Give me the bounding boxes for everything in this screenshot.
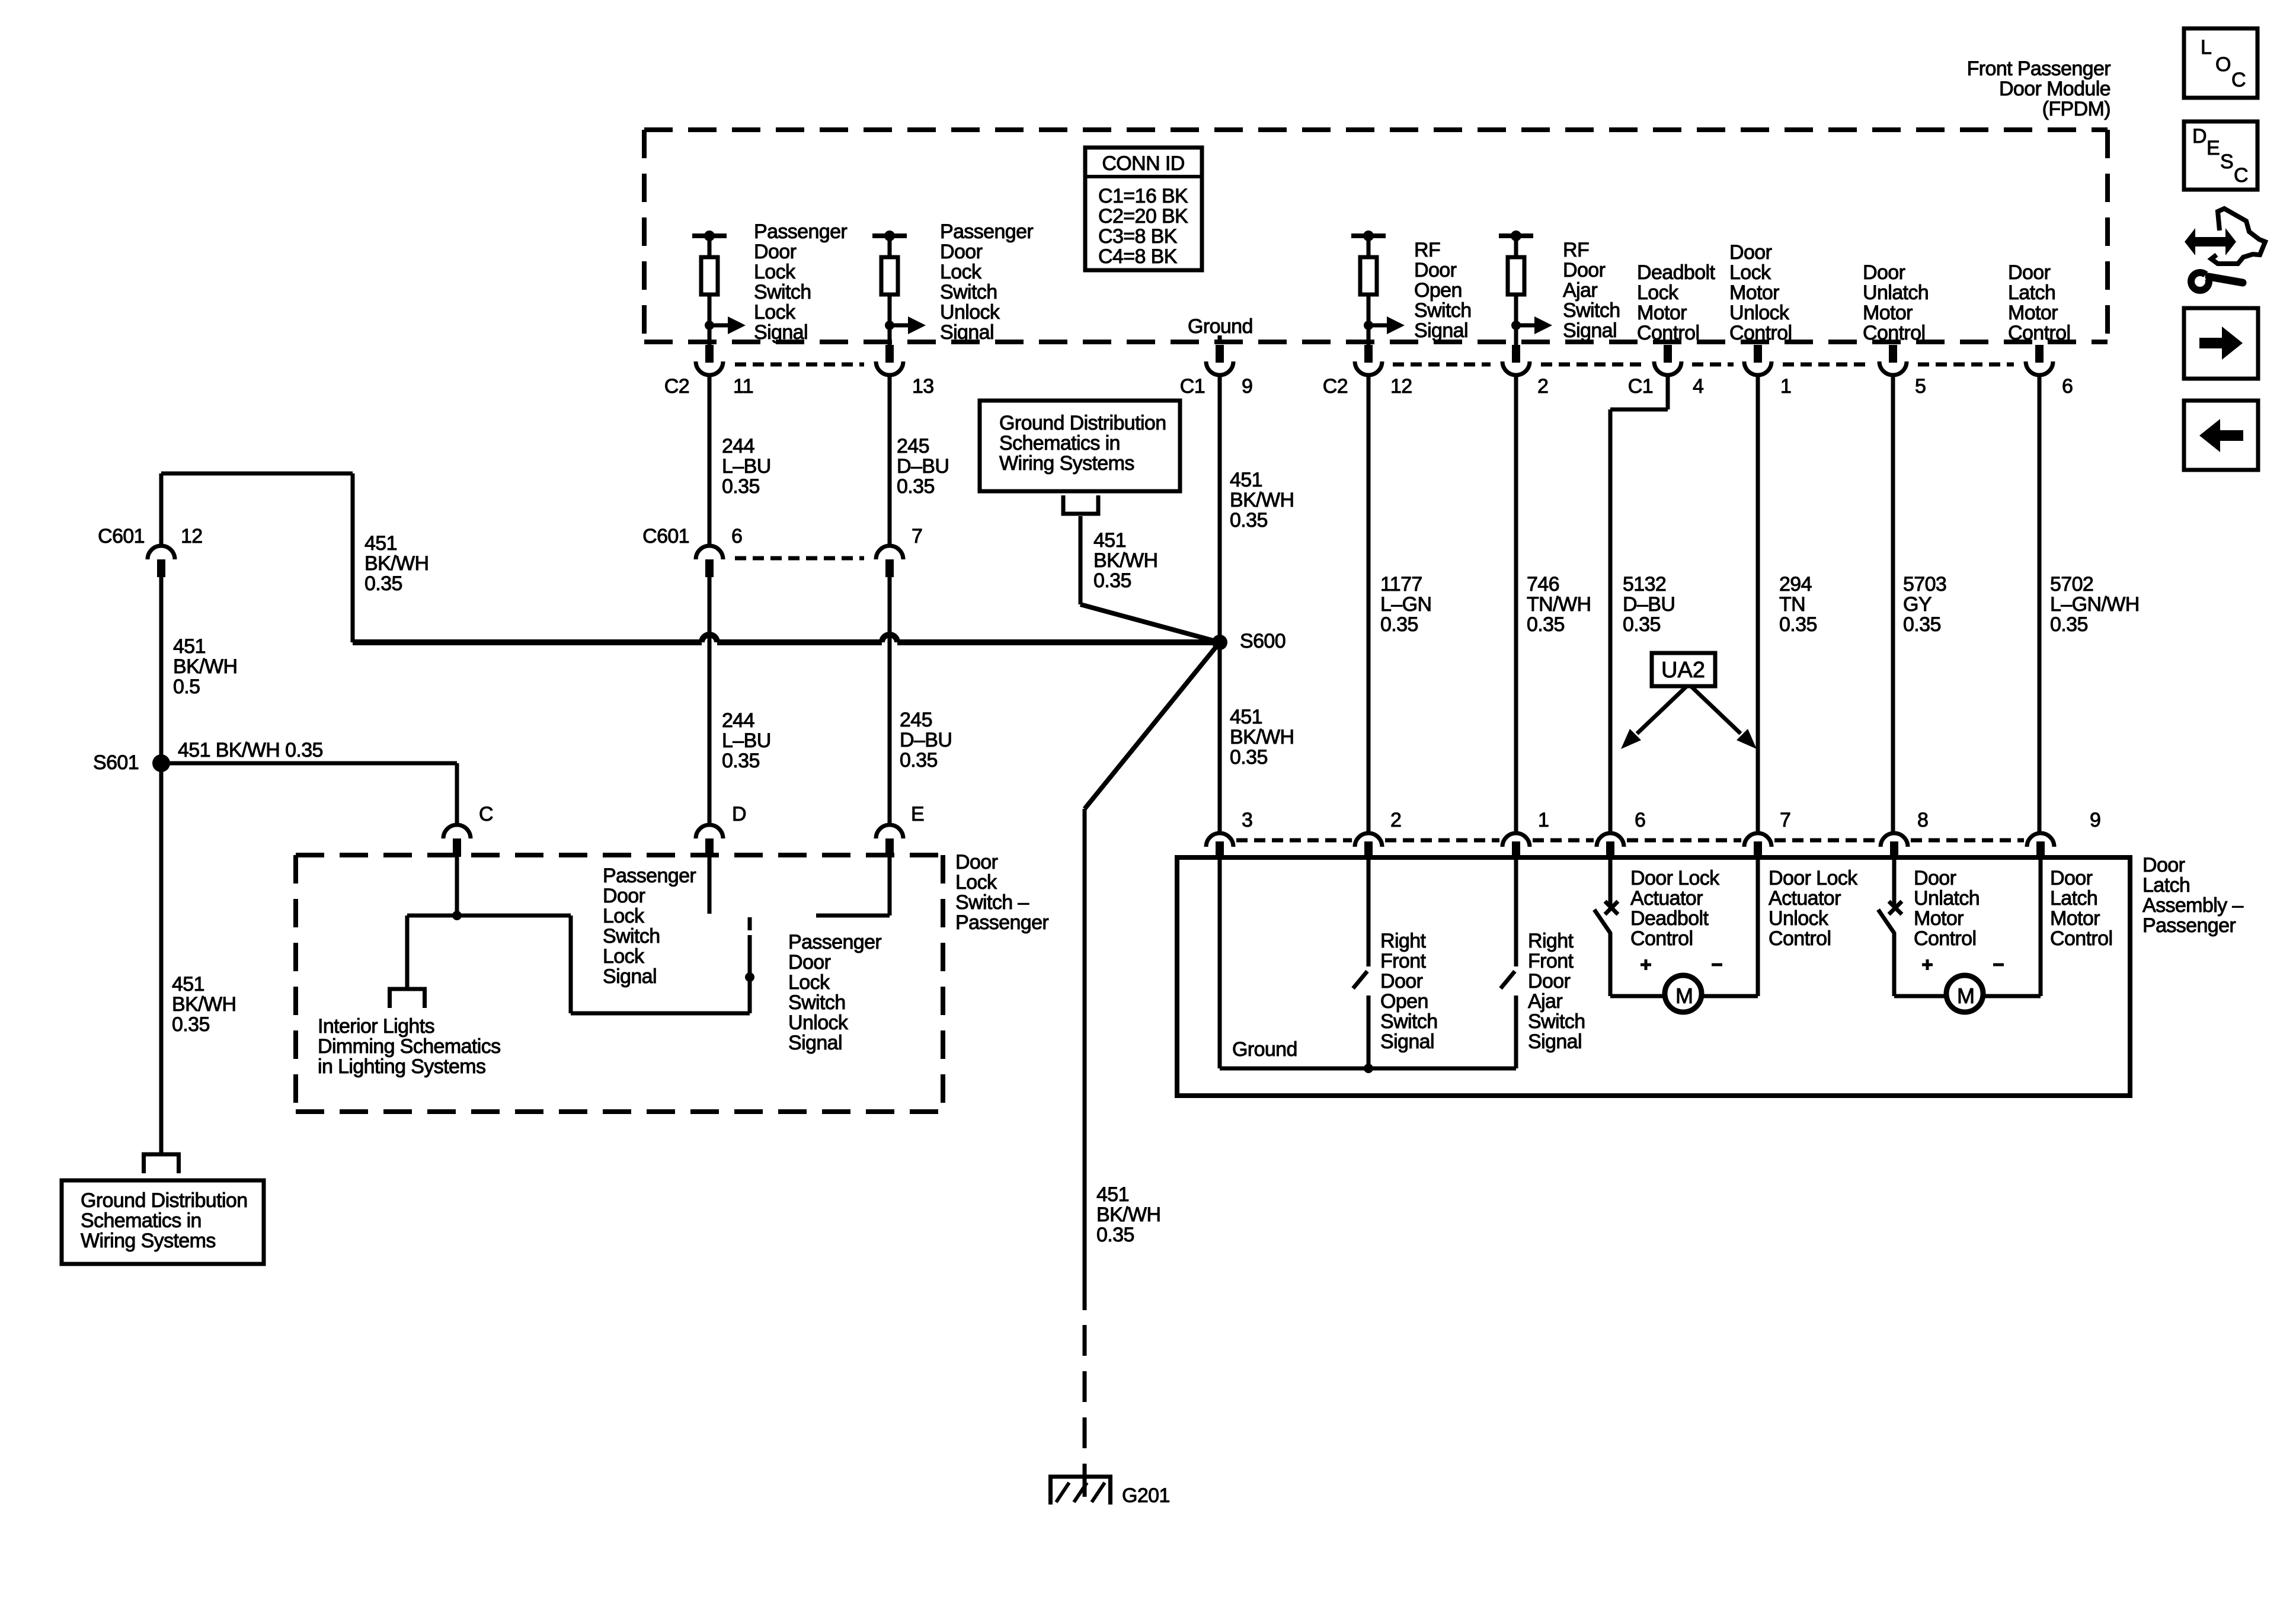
svg-text:UA2: UA2 (1661, 658, 1705, 683)
svg-text:L–GN/WH: L–GN/WH (2050, 593, 2140, 616)
svg-text:Lock: Lock (788, 971, 830, 994)
svg-text:5702: 5702 (2050, 573, 2093, 596)
svg-text:0.35: 0.35 (1230, 746, 1268, 769)
svg-text:Switch –: Switch – (955, 891, 1029, 914)
svg-text:0.35: 0.35 (1093, 569, 1131, 592)
svg-text:Deadbolt: Deadbolt (1637, 261, 1715, 284)
svg-text:Switch: Switch (940, 281, 997, 303)
svg-text:Passenger: Passenger (788, 931, 881, 953)
svg-text:6: 6 (731, 525, 742, 548)
svg-text:C3=8 BK: C3=8 BK (1098, 225, 1178, 248)
svg-text:RF: RF (1563, 239, 1589, 261)
svg-text:0.35: 0.35 (364, 572, 402, 595)
svg-text:Ground Distribution: Ground Distribution (999, 412, 1166, 434)
svg-text:BK/WH: BK/WH (1230, 726, 1294, 748)
svg-text:1: 1 (1538, 809, 1549, 831)
svg-text:L–GN: L–GN (1380, 593, 1431, 616)
svg-text:5132: 5132 (1623, 573, 1666, 596)
svg-text:Schematics in: Schematics in (999, 432, 1120, 454)
svg-text:12: 12 (181, 525, 203, 548)
svg-text:Open: Open (1380, 990, 1428, 1013)
svg-text:L–BU: L–BU (722, 729, 771, 752)
svg-text:9: 9 (2090, 809, 2100, 831)
svg-text:S601: S601 (93, 751, 139, 774)
svg-text:Motor: Motor (2050, 907, 2100, 930)
svg-text:Door: Door (754, 241, 797, 263)
svg-text:Actuator: Actuator (1630, 887, 1703, 910)
svg-text:Unlatch: Unlatch (1914, 887, 1980, 910)
svg-text:Lock: Lock (603, 945, 645, 968)
svg-text:2: 2 (1390, 809, 1401, 831)
svg-text:Signal: Signal (754, 321, 808, 344)
svg-text:Unlock: Unlock (1769, 907, 1829, 930)
svg-text:0.35: 0.35 (897, 475, 935, 498)
svg-text:Passenger: Passenger (754, 220, 847, 243)
svg-text:Motor: Motor (1863, 302, 1913, 324)
svg-text:Door: Door (1414, 259, 1457, 281)
svg-text:GY: GY (1903, 593, 1932, 616)
svg-text:Motor: Motor (1729, 281, 1779, 304)
svg-text:M: M (1957, 984, 1975, 1008)
svg-text:D: D (732, 803, 746, 825)
svg-text:Control: Control (1729, 322, 1792, 344)
svg-text:Ground Distribution: Ground Distribution (81, 1189, 248, 1212)
svg-text:11: 11 (733, 375, 753, 398)
svg-text:C: C (2231, 69, 2246, 91)
svg-text:2: 2 (1537, 375, 1548, 398)
svg-text:0.35: 0.35 (1380, 613, 1418, 636)
svg-text:Door: Door (1563, 259, 1606, 281)
svg-text:Actuator: Actuator (1769, 887, 1841, 910)
svg-text:Passenger: Passenger (603, 865, 696, 887)
svg-text:Control: Control (1637, 322, 1699, 344)
svg-text:244: 244 (722, 435, 754, 457)
svg-text:Lock: Lock (603, 905, 645, 927)
svg-text:D–BU: D–BU (897, 455, 949, 478)
svg-text:4: 4 (1693, 375, 1703, 398)
svg-text:C1=16 BK: C1=16 BK (1098, 185, 1188, 207)
svg-text:Control: Control (1630, 927, 1693, 950)
svg-text:0.35: 0.35 (1623, 613, 1661, 636)
svg-text:L–BU: L–BU (722, 455, 771, 478)
svg-text:0.35: 0.35 (1230, 509, 1268, 532)
svg-text:Motor: Motor (1637, 302, 1687, 324)
svg-text:Ground: Ground (1188, 315, 1253, 338)
svg-text:Switch: Switch (603, 925, 660, 948)
svg-text:Lock: Lock (754, 301, 796, 324)
svg-text:Wiring Systems: Wiring Systems (81, 1230, 216, 1252)
svg-text:12: 12 (1390, 375, 1412, 398)
svg-text:C2=20 BK: C2=20 BK (1098, 205, 1188, 228)
svg-text:Door: Door (788, 951, 831, 974)
svg-text:Ajar: Ajar (1528, 990, 1562, 1013)
svg-text:9: 9 (1242, 375, 1252, 398)
svg-text:Control: Control (1914, 927, 1976, 950)
svg-text:Control: Control (2050, 927, 2112, 950)
svg-text:L: L (2201, 36, 2211, 59)
svg-text:0.35: 0.35 (1779, 613, 1817, 636)
svg-text:Door: Door (1729, 241, 1772, 264)
svg-text:C601: C601 (98, 525, 145, 548)
svg-text:Signal: Signal (1380, 1030, 1434, 1053)
svg-text:0.35: 0.35 (2050, 613, 2088, 636)
svg-text:Front: Front (1380, 950, 1427, 972)
svg-text:Door: Door (1380, 970, 1423, 993)
svg-text:Passenger: Passenger (940, 220, 1033, 243)
svg-text:Signal: Signal (940, 321, 994, 344)
svg-text:C1: C1 (1180, 375, 1205, 398)
svg-text:746: 746 (1527, 573, 1559, 596)
svg-text:Dimming Schematics: Dimming Schematics (318, 1035, 501, 1058)
svg-text:Signal: Signal (603, 965, 657, 988)
svg-text:CONN ID: CONN ID (1102, 152, 1184, 175)
svg-text:244: 244 (722, 709, 754, 732)
svg-text:Latch: Latch (2008, 281, 2055, 304)
svg-text:G201: G201 (1122, 1484, 1170, 1507)
svg-text:Assembly –: Assembly – (2142, 894, 2243, 917)
svg-text:Switch: Switch (788, 991, 846, 1014)
svg-text:Ajar: Ajar (1563, 279, 1597, 302)
svg-text:451 BK/WH 0.35: 451 BK/WH 0.35 (178, 739, 323, 761)
svg-text:BK/WH: BK/WH (1093, 549, 1157, 572)
svg-text:0.35: 0.35 (1527, 613, 1565, 636)
svg-text:0.35: 0.35 (172, 1013, 210, 1036)
svg-text:Signal: Signal (1414, 319, 1468, 342)
svg-text:5703: 5703 (1903, 573, 1946, 596)
svg-text:Schematics in: Schematics in (81, 1209, 202, 1232)
svg-text:Signal: Signal (788, 1032, 842, 1054)
svg-text:C2: C2 (664, 375, 689, 398)
svg-text:O: O (2215, 53, 2231, 76)
svg-text:Lock: Lock (1637, 281, 1679, 304)
svg-text:Switch: Switch (1563, 299, 1620, 322)
svg-text:BK/WH: BK/WH (173, 655, 237, 678)
svg-text:8: 8 (1917, 809, 1928, 831)
svg-text:D–BU: D–BU (1623, 593, 1675, 616)
svg-text:Door Lock: Door Lock (1630, 867, 1720, 889)
svg-text:451: 451 (1096, 1183, 1129, 1206)
svg-text:Door Lock: Door Lock (1769, 867, 1858, 889)
svg-text:3: 3 (1242, 809, 1252, 831)
svg-text:S: S (2220, 151, 2233, 173)
svg-text:Switch: Switch (1528, 1010, 1585, 1033)
svg-text:451: 451 (1230, 469, 1262, 491)
svg-text:Door: Door (2008, 261, 2051, 284)
svg-text:S600: S600 (1240, 630, 1285, 652)
svg-text:6: 6 (1635, 809, 1645, 831)
svg-text:451: 451 (172, 973, 204, 996)
svg-text:Door: Door (1914, 867, 1956, 889)
svg-text:Front Passenger: Front Passenger (1967, 57, 2111, 80)
svg-text:7: 7 (1780, 809, 1790, 831)
svg-text:0.35: 0.35 (1096, 1224, 1134, 1246)
svg-text:Latch: Latch (2142, 874, 2190, 897)
svg-text:Signal: Signal (1528, 1030, 1582, 1053)
svg-text:Door: Door (940, 241, 983, 263)
svg-text:Unlatch: Unlatch (1863, 281, 1929, 304)
svg-text:5: 5 (1915, 375, 1926, 398)
svg-text:Lock: Lock (940, 261, 982, 283)
svg-text:1: 1 (1780, 375, 1791, 398)
svg-text:451: 451 (1230, 706, 1262, 728)
svg-text:Unlock: Unlock (788, 1012, 849, 1034)
svg-text:Lock: Lock (754, 261, 796, 283)
svg-text:C1: C1 (1628, 375, 1653, 398)
svg-text:(FPDM): (FPDM) (2042, 98, 2110, 120)
svg-text:Door: Door (1528, 970, 1571, 993)
svg-text:Door: Door (955, 851, 998, 873)
svg-text:13: 13 (912, 375, 934, 398)
svg-text:0.35: 0.35 (900, 749, 938, 772)
svg-text:Lock: Lock (955, 871, 997, 894)
svg-text:Deadbolt: Deadbolt (1630, 907, 1709, 930)
svg-text:in Lighting Systems: in Lighting Systems (318, 1055, 485, 1078)
svg-text:Signal: Signal (1563, 319, 1617, 342)
svg-text:Front: Front (1528, 950, 1574, 972)
svg-text:BK/WH: BK/WH (1096, 1204, 1160, 1226)
svg-text:Motor: Motor (2008, 302, 2058, 324)
svg-text:BK/WH: BK/WH (1230, 489, 1294, 511)
svg-text:1177: 1177 (1380, 573, 1422, 596)
svg-text:Motor: Motor (1914, 907, 1964, 930)
svg-text:Latch: Latch (2050, 887, 2097, 910)
svg-text:6: 6 (2062, 375, 2073, 398)
svg-text:Open: Open (1414, 279, 1462, 302)
svg-text:Unlock: Unlock (1729, 302, 1790, 324)
svg-text:0.35: 0.35 (722, 475, 760, 498)
svg-text:7: 7 (912, 525, 922, 548)
svg-text:C2: C2 (1323, 375, 1348, 398)
svg-text:294: 294 (1779, 573, 1812, 596)
svg-text:Switch: Switch (1380, 1010, 1438, 1033)
svg-text:D: D (2192, 125, 2207, 148)
svg-text:Unlock: Unlock (940, 301, 1000, 324)
svg-text:451: 451 (173, 635, 206, 658)
svg-text:C: C (479, 803, 493, 825)
svg-text:Control: Control (1769, 927, 1831, 950)
svg-text:Passenger: Passenger (2142, 914, 2236, 937)
svg-text:Switch: Switch (1414, 299, 1472, 322)
svg-text:TN: TN (1779, 593, 1805, 616)
svg-text:245: 245 (897, 435, 929, 457)
svg-text:0.35: 0.35 (1903, 613, 1941, 636)
svg-text:C: C (2234, 164, 2248, 187)
svg-text:Control: Control (1863, 322, 1925, 344)
svg-text:Door Module: Door Module (1999, 78, 2110, 100)
svg-text:451: 451 (1093, 529, 1126, 552)
svg-text:C4=8 BK: C4=8 BK (1098, 245, 1178, 268)
svg-text:Ground: Ground (1232, 1038, 1297, 1061)
svg-text:TN/WH: TN/WH (1527, 593, 1591, 616)
svg-text:Door: Door (1863, 261, 1905, 284)
svg-text:E: E (2207, 137, 2220, 159)
svg-text:Right: Right (1380, 930, 1427, 952)
svg-text:BK/WH: BK/WH (364, 552, 428, 575)
svg-text:Wiring Systems: Wiring Systems (999, 452, 1134, 475)
svg-text:Control: Control (2008, 322, 2070, 344)
svg-text:Door: Door (2142, 854, 2185, 876)
svg-text:0.5: 0.5 (173, 676, 200, 698)
svg-text:BK/WH: BK/WH (172, 993, 236, 1016)
svg-text:RF: RF (1414, 239, 1440, 261)
svg-text:245: 245 (900, 709, 932, 731)
svg-text:E: E (911, 803, 924, 825)
svg-text:D–BU: D–BU (900, 729, 952, 751)
svg-text:Passenger: Passenger (955, 911, 1048, 934)
svg-text:Interior Lights: Interior Lights (318, 1015, 434, 1038)
svg-text:451: 451 (364, 532, 397, 555)
svg-text:Lock: Lock (1729, 261, 1771, 284)
svg-text:Switch: Switch (754, 281, 811, 303)
svg-text:Door: Door (2050, 867, 2093, 889)
svg-text:0.35: 0.35 (722, 750, 760, 772)
svg-text:M: M (1675, 984, 1693, 1008)
svg-text:C601: C601 (642, 525, 689, 548)
svg-text:Door: Door (603, 885, 645, 907)
svg-text:Right: Right (1528, 930, 1574, 952)
